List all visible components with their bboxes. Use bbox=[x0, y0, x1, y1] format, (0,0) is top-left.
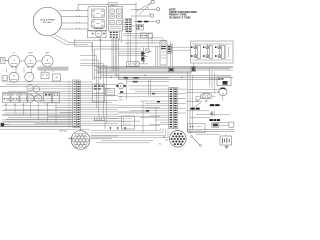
gauge M1 OIL bbox=[8, 53, 19, 68]
current transformer CT2 bbox=[203, 44, 212, 59]
terminal strip TB2 bbox=[68, 80, 80, 127]
splice dash marks bbox=[146, 93, 160, 112]
wire G1 stator lead T2 bbox=[61, 16, 88, 18]
wire K6 to CT box bbox=[171, 47, 190, 50]
wire relay drops to bundle bbox=[6, 102, 56, 124]
wire to S3 bbox=[131, 15, 150, 17]
svg-text:CONTROL: CONTROL bbox=[94, 28, 104, 30]
wire G1 field lead diagonal bbox=[54, 34, 92, 52]
wire gauge links bbox=[5, 60, 42, 63]
wire bus risers right bbox=[188, 71, 193, 134]
label TB markers bbox=[119, 97, 123, 102]
aux box right edge bbox=[229, 122, 234, 127]
wire battery leads bbox=[219, 92, 226, 137]
svg-text:EN CASO: EN CASO bbox=[43, 21, 52, 24]
note text block bbox=[169, 9, 197, 20]
battery BT1 bbox=[220, 136, 232, 145]
wire riser bundle center bbox=[74, 39, 160, 123]
svg-text:REG: REG bbox=[111, 4, 115, 6]
wire to S1 bbox=[137, 3, 151, 12]
lamp DS1 bbox=[27, 95, 35, 103]
wire bus corners right bbox=[210, 69, 215, 94]
small boxes mid bbox=[141, 33, 153, 38]
wire field into TB2 bbox=[0, 82, 73, 126]
wire TB3 feeds bbox=[105, 119, 122, 130]
wire riser bbox=[135, 3, 137, 40]
fuse block F1 bbox=[93, 84, 105, 102]
switch circle S9b bbox=[205, 100, 207, 102]
solenoid SOL (dark) bbox=[168, 67, 174, 72]
wire G1 stator lead T3 bbox=[62, 22, 88, 24]
svg-text:SECONDARY 'S' TURNS: SECONDARY 'S' TURNS bbox=[169, 16, 191, 19]
terminal post B+ bbox=[1, 58, 9, 64]
svg-text:J3: J3 bbox=[98, 115, 100, 117]
label CIR BKR 50A (bold) bbox=[210, 119, 221, 121]
switch S8 lever bbox=[190, 135, 201, 146]
terminal strip TB4 bbox=[169, 88, 178, 129]
connector comb J3 bbox=[94, 115, 105, 120]
connector P2 (round multi-pin) bbox=[170, 131, 187, 148]
ground lug bbox=[1, 123, 9, 127]
wire P1 leads right bbox=[90, 136, 118, 139]
diode CR1 bbox=[141, 48, 145, 64]
wire bundle lower-left bbox=[0, 111, 90, 130]
component labels bbox=[5, 104, 48, 106]
wire gauge drops bbox=[7, 68, 54, 73]
lamp DS2 bbox=[34, 95, 42, 103]
label GRD BUS (bold) bbox=[191, 108, 200, 110]
svg-text:TB2: TB2 bbox=[119, 97, 122, 99]
sender switches bbox=[2, 76, 8, 81]
gauge M5 bbox=[25, 72, 34, 81]
lamp DS3 bbox=[27, 85, 33, 91]
wire motor feeds bbox=[186, 90, 219, 102]
ground symbol battery bbox=[225, 145, 229, 148]
switch S9 lever bbox=[196, 97, 202, 102]
breaker CB1 box bbox=[212, 123, 219, 128]
fuse F2 box bbox=[127, 62, 140, 67]
varistor box bbox=[146, 49, 150, 53]
exciter circle GEN bbox=[92, 30, 105, 37]
diode CR2 bbox=[141, 56, 145, 61]
switch S2 bbox=[147, 8, 160, 11]
gauge M2 TEMP bbox=[25, 53, 36, 68]
relay K6 (dark) bbox=[167, 45, 171, 53]
svg-text:HZ: HZ bbox=[13, 75, 15, 77]
connector P1 (round multi-pin) bbox=[71, 127, 90, 149]
rheostat R1 bbox=[41, 71, 49, 79]
starter motor M1 bbox=[219, 87, 227, 95]
wire power bus bbox=[95, 67, 233, 80]
wire riser x136 bbox=[135, 39, 137, 67]
wire risers A2 bbox=[163, 39, 173, 66]
wire field out of TB2 bbox=[80, 82, 160, 126]
current transformer CT3 bbox=[215, 44, 224, 59]
relay K1A bbox=[92, 9, 105, 18]
relay K5 bbox=[20, 93, 28, 103]
wire top bus bbox=[78, 4, 136, 10]
wire TB4 right taps bbox=[178, 89, 186, 113]
aux box bbox=[106, 89, 115, 96]
switch S5 box bbox=[44, 93, 52, 103]
gauge M4 bbox=[9, 72, 19, 82]
wire regulator drops bbox=[112, 38, 118, 80]
wire labels dark dashes bbox=[120, 77, 138, 93]
switch S6 box bbox=[53, 93, 60, 103]
wire lattice center bbox=[118, 32, 152, 62]
receptacle duplex bbox=[201, 94, 212, 99]
relay K7 (dark center) bbox=[217, 77, 231, 86]
relay K1B bbox=[92, 20, 105, 29]
wire harness bundle gray bar A bbox=[38, 67, 69, 71]
wire risers center-low bbox=[149, 80, 151, 96]
wire label ticks bbox=[77, 9, 80, 29]
wire field into TB4 bbox=[118, 89, 169, 125]
wire G1 stator lead T4 bbox=[60, 28, 88, 30]
svg-text:OIL: OIL bbox=[13, 53, 16, 55]
relay K3 bbox=[3, 93, 11, 103]
wire risers x156 bbox=[156, 46, 158, 66]
svg-text:NOTA: A PRIMER: NOTA: A PRIMER bbox=[40, 18, 55, 21]
wire mid runs bbox=[118, 26, 167, 64]
svg-text:VIEW A-A: VIEW A-A bbox=[59, 130, 68, 133]
wire riser x126 bbox=[125, 76, 127, 100]
exciter module box bbox=[88, 30, 107, 37]
wire right column runs bbox=[186, 102, 230, 126]
control device A2 bbox=[160, 41, 167, 65]
wire horn runs bbox=[118, 78, 169, 97]
splice posts bbox=[110, 127, 126, 130]
wire to S2 bbox=[131, 9, 156, 11]
wire bundle bottom center bbox=[91, 129, 168, 143]
switch S1 bbox=[149, 0, 154, 5]
svg-text:R1: R1 bbox=[44, 71, 46, 73]
wire G1 stator lead T1 bbox=[60, 10, 88, 12]
voltage regulator VR1 bbox=[109, 7, 123, 32]
P2 pin labels bbox=[163, 137, 168, 141]
arrow marker P1 bbox=[69, 137, 74, 139]
wire TB1 feeds bbox=[123, 20, 126, 29]
current transformer box bbox=[191, 41, 234, 63]
wire riser x143 bbox=[142, 101, 144, 133]
label VR1 bbox=[108, 3, 117, 7]
relay K4 bbox=[11, 93, 19, 103]
solenoid SOL2 (dark) bbox=[191, 63, 196, 72]
terminal block TB3 bbox=[122, 116, 135, 129]
junction box lower right bbox=[188, 124, 205, 133]
wire riser x156 bbox=[155, 107, 157, 130]
svg-text:W12: W12 bbox=[158, 143, 161, 145]
current transformer CT1 bbox=[191, 44, 200, 59]
wire to S4 with splice marks bbox=[134, 21, 156, 23]
gauge M3 AMP bbox=[42, 52, 53, 68]
wire CT links bbox=[192, 44, 232, 60]
wire K7 feed bbox=[209, 78, 217, 80]
horn HN1 bbox=[116, 83, 126, 89]
label START SOL (bold) bbox=[210, 104, 220, 106]
wire G1 field lead 2 bbox=[52, 36, 89, 45]
relay K2 bbox=[137, 25, 144, 30]
ground symbol G1 bbox=[210, 111, 214, 115]
terminal strip TB1 bbox=[126, 19, 132, 32]
switch S3 bbox=[149, 13, 154, 17]
wire lower right runs bbox=[187, 130, 234, 135]
hour meter HM bbox=[53, 74, 61, 81]
wire harness bundle gray bar B bbox=[97, 71, 192, 73]
relay socket block K1 bbox=[88, 7, 107, 32]
regulator terminal rows bbox=[110, 32, 118, 38]
switch S4 bbox=[157, 20, 160, 23]
generator G1 (main alternator circle) bbox=[33, 7, 62, 36]
wire to S1b bbox=[139, 3, 151, 14]
lamp DS4 bbox=[33, 86, 39, 92]
